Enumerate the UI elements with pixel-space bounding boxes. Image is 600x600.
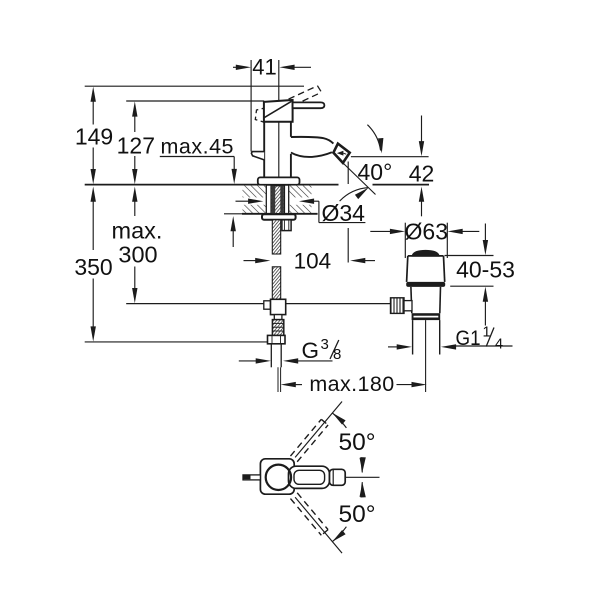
faucet handle raised position (dashed) [279, 86, 318, 104]
svg-text:8: 8 [333, 346, 341, 363]
waste plug dome [412, 251, 439, 256]
top-view body square [260, 459, 294, 494]
knob arm [404, 301, 412, 311]
spout 40-degree line [343, 163, 376, 195]
handle-top reference line (149 level) [85, 85, 304, 87]
pop-up knob tab (left of body) [251, 152, 264, 160]
svg-text:149: 149 [75, 124, 113, 150]
dimension Ø34 line [236, 200, 250, 202]
dimension 40-53 line [484, 224, 486, 242]
40-degree arc upper segment [367, 125, 380, 151]
top-view body circle [266, 465, 291, 490]
rod-level reference line (max.300 bottom) [126, 303, 264, 305]
hose-end reference line (350 bottom) [85, 341, 268, 343]
svg-text:4: 4 [495, 337, 503, 353]
svg-text:Ø63: Ø63 [405, 218, 448, 244]
waste knurled knob [391, 298, 405, 314]
threaded shank (in deck hole) [271, 186, 285, 214]
max.45 leader [160, 156, 234, 158]
aerator tip extension line [347, 162, 349, 185]
flexible hose upper segment (braided) [272, 220, 280, 254]
dimension 350 line [91, 187, 96, 202]
faucet body right wall lower [290, 154, 292, 177]
svg-text:G: G [302, 338, 320, 363]
dimension 127 line [132, 101, 137, 116]
waste O-ring (black band) [406, 282, 445, 287]
lower 50-degree arc inner segment [360, 482, 362, 497]
deck underside line [242, 213, 318, 215]
upper 50-degree arc inner segment [360, 458, 362, 473]
svg-text:40°: 40° [358, 159, 393, 185]
dimension Ø63 line [370, 230, 391, 232]
dimension 104 line [244, 260, 258, 262]
top-view pop-up pin [243, 475, 260, 480]
top-view axis line [345, 476, 379, 478]
G3/8 dimension arrows [239, 360, 257, 362]
upper 50-degree lever axis line [295, 401, 342, 457]
upper 50-degree arc outer segment [332, 413, 346, 428]
hose end hex nut [268, 335, 286, 343]
Ø63 extension lines [404, 223, 406, 258]
dimension 149 line [91, 87, 96, 102]
svg-text:50°: 50° [339, 501, 376, 528]
faucet body right wall upper [290, 122, 292, 137]
faucet handle lowered position (dashed) [255, 108, 266, 123]
dimension max.300 line [132, 187, 137, 202]
handle base internal diagonal [264, 101, 292, 118]
svg-text:127: 127 [117, 133, 155, 159]
max.45 lower arrow (under deck) [231, 216, 236, 231]
mounting shank outer sleeve [265, 185, 267, 213]
svg-text:max.180: max.180 [309, 372, 394, 396]
deck hatching right block [289, 186, 312, 214]
waste tailpipe centreline [425, 320, 427, 392]
svg-text:104: 104 [294, 248, 332, 273]
aerator block (tilted square) [333, 144, 349, 163]
aerator spray direction mark [337, 151, 344, 156]
handle lever bar [293, 102, 325, 108]
G3/8 threaded tail [270, 344, 272, 368]
spout axis horizontal line [351, 156, 429, 158]
deck top surface line [85, 184, 339, 186]
dimension max.180 line [281, 382, 296, 387]
flexible hose lower segment (braided) [272, 267, 280, 300]
svg-text:42: 42 [409, 160, 435, 186]
faucet base plate [258, 177, 300, 184]
hose tail extension lines [277, 367, 279, 392]
top-view lever tip block [330, 469, 346, 485]
pop-up rod coupling (cross fitting) [264, 301, 271, 309]
washer under deck [262, 214, 296, 220]
coupling lower pin [274, 315, 282, 320]
Ø34 leader corner [318, 201, 320, 222]
104 extension tick [347, 228, 349, 263]
40-degree arc lower segment [340, 188, 369, 202]
waste tailpiece joint nut [412, 313, 441, 320]
svg-text:max.45: max.45 [161, 135, 235, 159]
handle base block [264, 100, 293, 122]
hose end connector [272, 320, 283, 336]
upper dashed lever position [290, 419, 328, 461]
G1-1/4 dimension arrows [388, 346, 399, 348]
svg-text:max.: max. [112, 218, 163, 244]
dimension 41 line [233, 66, 239, 68]
lower dashed lever position [290, 493, 328, 535]
top-view lever inner outline [294, 470, 325, 484]
40-53 extension ticks [445, 255, 494, 257]
faucet body left wall [263, 122, 265, 178]
svg-text:G1: G1 [456, 327, 481, 350]
svg-text:41: 41 [252, 54, 276, 79]
hatch white gap for dimension line [243, 197, 267, 204]
waste tailpipe [412, 320, 414, 354]
deck underside extension to left [224, 213, 242, 215]
svg-text:3: 3 [321, 336, 329, 353]
svg-text:350: 350 [74, 254, 112, 280]
svg-text:300: 300 [118, 242, 157, 268]
lower 50-degree lever axis line [295, 497, 342, 553]
svg-text:40-53: 40-53 [456, 256, 515, 282]
mounting nut [282, 220, 291, 231]
body-top reference line (127 level) [126, 100, 264, 102]
dimension 41 extension lines [250, 60, 252, 152]
top-view lever shaft [289, 466, 330, 488]
svg-text:Ø34: Ø34 [322, 200, 366, 226]
deck hatching left block [243, 186, 267, 214]
svg-text:50°: 50° [339, 429, 376, 456]
lower 50-degree arc outer segment [332, 527, 346, 542]
spout outline [291, 137, 334, 144]
waste body [410, 287, 413, 313]
dimension 42 line [421, 116, 423, 144]
waste flange [408, 255, 444, 257]
